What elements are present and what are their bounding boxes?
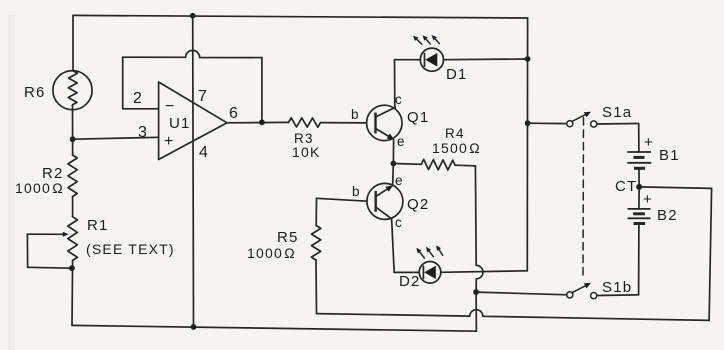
wire pin7/pin4 vertical rail [192,16,195,327]
wire pin3 input [73,137,159,139]
wire right rail down [709,188,712,320]
svg-text:CT: CT [615,178,637,195]
node D1/rail junction [525,56,531,62]
wire D1 left lead [395,59,421,61]
svg-text:Q2: Q2 [407,196,429,213]
svg-text:B1: B1 [659,147,680,164]
resistor R3 [289,118,321,127]
svg-text:3: 3 [138,124,148,141]
wire Q1 emitter down [392,140,394,164]
wire S1b node down to bottom rail [475,292,477,331]
transistor Q1 [367,105,402,140]
wire S1a right lead [597,124,639,153]
resistor R2 [68,155,77,197]
wire D1 right lead to rail [444,58,528,61]
battery B2 [628,187,651,224]
wire feedback down to output [261,58,263,123]
wire Q2 collector down to D2 [392,219,395,273]
node CT junction [636,184,642,190]
wire Q1 collector up to D1 [394,60,396,108]
svg-text:S1b: S1b [602,279,632,296]
node S1a/rail junction [525,120,531,126]
node bottom-rail / pin4 junction [191,324,197,330]
node R6/R2/pin3 junction [70,136,76,142]
svg-text:b: b [352,184,361,199]
svg-text:e: e [397,134,406,149]
resistor R5 [311,226,320,261]
svg-text:D1: D1 [446,66,468,83]
svg-text:B2: B2 [657,207,678,224]
switch S1b [567,283,597,299]
battery B1 [627,152,651,187]
wire S1b left lead [476,292,566,295]
wire R6 bottom to node [72,105,74,139]
wire R5 bottom to right rail (hop over S1b drop) [317,310,710,321]
op-amp U1 [159,82,227,160]
svg-text:1500Ω: 1500Ω [432,140,481,156]
svg-text:+: + [164,133,175,150]
wire right vertical rail (top to D2) [526,18,528,271]
wire R4 down (hop over D2 wire) [475,166,483,292]
svg-text:D2: D2 [399,273,421,290]
svg-text:c: c [395,92,403,107]
svg-text:1000Ω: 1000Ω [247,245,296,261]
svg-text:+: + [644,134,654,151]
wire R2 to R1 [72,197,74,217]
node R1 bottom junction [69,265,75,271]
LED D2 [416,245,442,283]
node top-rail / pin7 junction [190,13,196,19]
svg-text:6: 6 [229,105,239,122]
LED D1 [413,35,444,71]
wire top rail [73,15,528,18]
wire R5 top lead [315,198,317,225]
svg-text:b: b [351,107,360,122]
svg-text:R1: R1 [87,217,109,234]
svg-text:+: + [643,191,653,208]
node output/feedback junction [259,119,265,125]
wire R4 left lead [393,163,421,166]
wire R3 to Q1 base [321,122,367,124]
svg-text:R6: R6 [24,84,46,101]
node S1b junction [473,289,479,295]
svg-text:−: − [165,98,176,115]
svg-text:10K: 10K [292,144,321,160]
wire D2 left lead [394,271,419,273]
resistor R4 [421,159,455,170]
potentiometer R1 [27,217,77,268]
svg-text:e: e [395,173,404,188]
svg-text:U1: U1 [169,115,191,132]
svg-text:R4: R4 [445,126,465,141]
svg-text:1000Ω: 1000Ω [15,180,64,196]
wire S1a left lead [528,122,567,124]
wire Q2 emitter up [392,164,395,186]
svg-text:R5: R5 [277,229,299,246]
transistor Q2 [367,183,403,219]
wire R5 bottom lead [315,260,318,314]
wire S1b right lead [597,294,639,297]
wire R4 right lead [455,164,475,167]
wire gang dashed link S1a-S1b [582,118,585,280]
wire output pin6 [227,121,289,123]
switch S1a [567,112,597,127]
wire CT to right rail [639,187,711,189]
node emitter/R4 junction [391,161,397,167]
wire left rail top (to R6) [72,15,74,70]
wire pin2 input [123,57,159,109]
svg-text:Q1: Q1 [407,109,429,126]
wire D2 right lead to rail corner [441,271,528,273]
svg-text:c: c [395,215,403,230]
svg-text:(SEE TEXT): (SEE TEXT) [86,241,175,257]
wire feedback top (hop over pin7 rail) [123,50,262,57]
svg-text:4: 4 [199,144,209,161]
svg-text:2: 2 [133,90,143,107]
wire node to R2 [72,139,74,155]
wire Q2 base left [317,198,367,201]
photoresistor R6 [53,71,92,110]
wire left rail bottom [71,260,74,325]
svg-text:S1a: S1a [602,104,632,121]
wire bottom rail [72,325,476,331]
svg-text:7: 7 [198,88,208,105]
wire B2 down to S1b [638,224,640,295]
